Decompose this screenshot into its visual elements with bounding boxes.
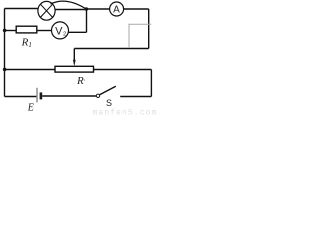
wire: bottom right to switch — [120, 96, 151, 98]
svg-text:S: S — [106, 98, 112, 108]
wire: voltmeter right going to vertical riser — [68, 31, 87, 33]
wire: right vertical rail (top) — [148, 9, 150, 49]
wire: ammeter to top-right corner — [124, 8, 149, 10]
node junction dot (left rail, rheostat branch) — [3, 68, 7, 72]
switch S — [96, 86, 116, 97]
svg-text:R′: R′ — [76, 75, 86, 87]
wire: R1 to voltmeter — [37, 30, 52, 32]
ammeter A body — [110, 2, 124, 16]
wire: horizontal to slider arrow — [74, 48, 148, 50]
wire: rheostat to right side — [94, 69, 152, 71]
battery E short plate — [40, 92, 43, 99]
wire: vertical riser from voltmeter branch to top node — [86, 9, 88, 32]
svg-text:R1: R1 — [21, 36, 32, 49]
svg-text:2: 2 — [63, 32, 66, 38]
wire: left rail to R1 — [5, 30, 17, 32]
battery E long plate — [36, 88, 38, 103]
svg-text:manfen5.com: manfen5.com — [93, 109, 158, 118]
lamp L1 (circle with X) — [38, 1, 55, 20]
svg-text:A: A — [113, 5, 120, 16]
wire: left vertical rail — [4, 9, 6, 97]
wire: battery to switch — [42, 95, 96, 97]
resistor R1 body — [16, 26, 37, 33]
node junction dot (left rail, R1 branch) — [3, 29, 7, 33]
svg-text:E: E — [27, 103, 34, 114]
rheostat slider arrow — [73, 49, 76, 67]
svg-text:V: V — [55, 26, 63, 38]
wire: right vertical rail (bottom) — [150, 70, 152, 97]
rheostat R' body — [55, 66, 94, 72]
wire: node to ammeter — [86, 8, 109, 10]
wire: top horizontal from left rail to lamp — [5, 8, 39, 10]
wire: lamp right to node junction — [55, 9, 86, 11]
gray leftover box (faded rectangle corner) — [129, 24, 151, 48]
node junction dot (top) — [85, 7, 89, 11]
wire: bottom left from rail to battery — [5, 96, 37, 98]
wire: left rail to rheostat — [5, 69, 56, 71]
wire: curved arc from lamp top to node junction — [51, 1, 86, 8]
voltmeter V2 body — [52, 22, 69, 39]
